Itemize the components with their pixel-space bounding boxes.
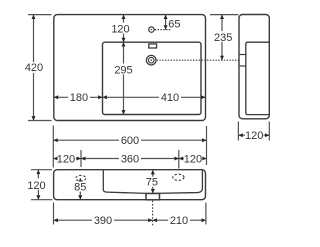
svg-text:420: 420 [25,62,43,74]
side view drain notch [240,55,246,67]
front view outline [54,170,206,200]
svg-text:295: 295 [114,64,132,76]
side view inner profile [246,42,269,114]
dimension 600 [53,135,206,147]
svg-text:120: 120 [27,180,45,192]
hidden fixing hole left [76,175,86,181]
svg-text:120: 120 [111,23,129,35]
front drain fitting [146,194,160,200]
svg-text:120: 120 [245,130,263,142]
dimension 410 [103,92,206,104]
bottom row extension lines [54,203,206,225]
dimension 120 right [179,153,207,165]
dimension 65 [166,15,181,31]
top view outer rim [54,15,206,121]
dimension 210 [153,215,206,227]
svg-text:600: 600 [121,135,139,147]
dimension 85 [73,178,88,200]
svg-text:360: 360 [121,154,139,166]
front view bowl profile [103,170,202,193]
dimension 600 extension lines [53,126,206,168]
dimension 75 [145,170,160,193]
faucet centre dotted line [155,29,171,31]
dimension 120 (faucet offset) [111,15,130,43]
dimension 180 [54,92,103,104]
svg-text:210: 210 [170,215,188,227]
dimension 390 [54,215,153,227]
svg-text:235: 235 [214,32,232,44]
hidden fixing hole right [173,174,184,180]
dimension 235 [210,15,239,61]
dimension 120 left [53,153,81,165]
dimension 120 (side depth) [238,122,269,143]
top view basin inner rim [103,42,202,114]
faucet hole [149,27,154,32]
row2 extension lines [81,150,179,169]
drain hidden dashed line [152,201,154,227]
drain hole [146,55,156,65]
side view outline [239,15,269,119]
dimension 295 [113,42,135,114]
dimension 120 (front height) [27,170,53,200]
svg-text:180: 180 [70,92,88,104]
svg-text:120: 120 [184,154,202,166]
drain centre dotted line [157,59,239,61]
svg-text:390: 390 [94,215,112,227]
dimension 420 [24,15,52,121]
dimension 360 [81,153,179,165]
svg-text:75: 75 [146,177,158,189]
overflow slot [149,44,157,48]
svg-text:85: 85 [74,182,86,194]
svg-text:65: 65 [168,19,180,31]
svg-text:410: 410 [161,92,179,104]
svg-text:120: 120 [57,154,75,166]
